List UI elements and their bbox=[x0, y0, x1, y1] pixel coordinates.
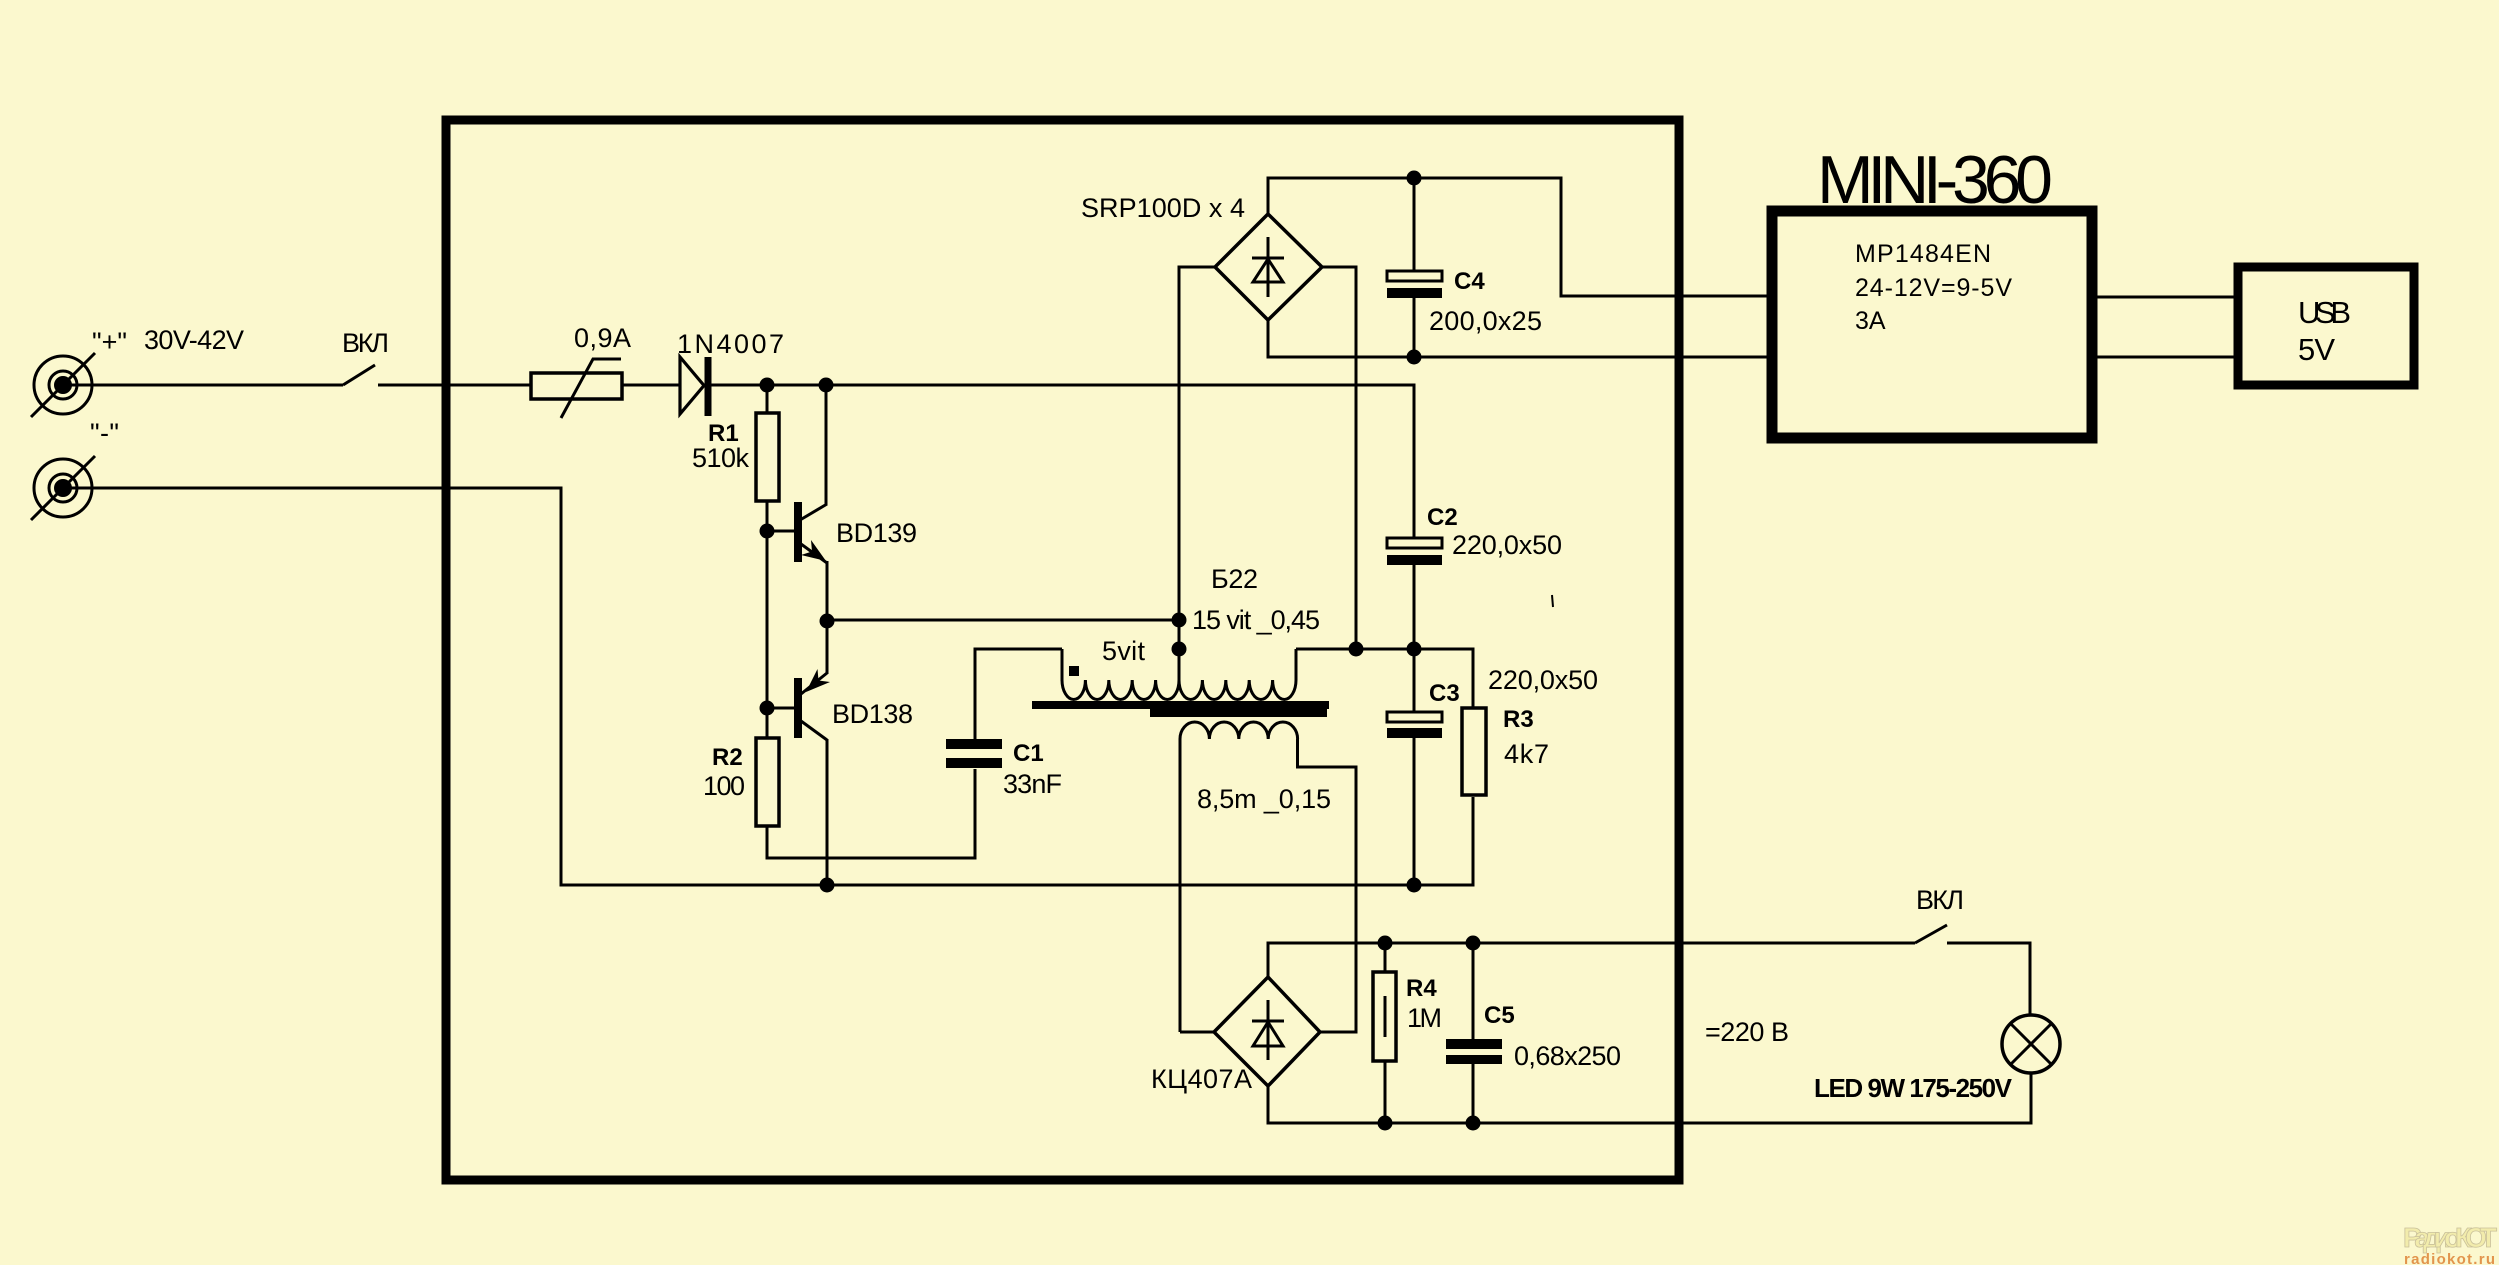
svg-text:Радио КОТ: Радио КОТ bbox=[2403, 1222, 2497, 1253]
terminal "+" bbox=[31, 353, 95, 417]
resistor R1 510k bbox=[756, 413, 779, 501]
node R4 top bbox=[1378, 936, 1393, 951]
USB output box bbox=[2238, 267, 2414, 385]
wire switch to lamp bbox=[1947, 943, 2030, 1016]
lamp EL1 bbox=[2002, 1015, 2060, 1073]
node base VT1 bbox=[760, 524, 775, 539]
svg-text:510k: 510k bbox=[692, 443, 750, 473]
terminal "-" bbox=[31, 456, 95, 520]
svg-text:USB: USB bbox=[2298, 295, 2351, 330]
node C4 top bbox=[1407, 171, 1422, 186]
wire bridge2 top rail to lamp switch bbox=[1268, 943, 1915, 977]
stray tick mark bbox=[1552, 595, 1553, 607]
wire main +rail bbox=[711, 385, 1414, 538]
capacitor C4 200,0x25 bbox=[1387, 178, 1442, 356]
svg-text:200,0x25: 200,0x25 bbox=[1429, 306, 1542, 336]
switch SW1 lever bbox=[343, 365, 375, 385]
node tap-drive bbox=[1172, 613, 1187, 628]
svg-text:1M: 1M bbox=[1407, 1003, 1442, 1033]
node main-VT1 collector bbox=[819, 378, 834, 393]
svg-text:3A: 3A bbox=[1855, 307, 1886, 335]
transformer T1 primary winding 5vit+15vit bbox=[1062, 649, 1296, 700]
capacitor C2 220,0x50 bbox=[1387, 538, 1442, 649]
capacitor C3 220,0x50 bbox=[1387, 649, 1442, 885]
svg-text:33nF: 33nF bbox=[1003, 769, 1062, 799]
capacitor C5 0,68x250 bbox=[1446, 943, 1502, 1123]
svg-text:8,5m _0,15: 8,5m _0,15 bbox=[1197, 784, 1331, 814]
node C3 to ground rail bbox=[1407, 878, 1422, 893]
svg-text:Б22: Б22 bbox=[1211, 564, 1258, 594]
svg-text:C3: C3 bbox=[1429, 680, 1460, 707]
svg-text:BD139: BD139 bbox=[836, 518, 917, 548]
resistor R4 1M bbox=[1373, 943, 1396, 1123]
transformer core bbox=[1032, 701, 1329, 717]
svg-text:220,0x50: 220,0x50 bbox=[1488, 665, 1598, 695]
bridge rectifier VD3 KC407A bbox=[1214, 977, 1320, 1086]
wire lamp bottom return bbox=[1268, 1073, 2031, 1123]
svg-text:0,9A: 0,9A bbox=[574, 323, 631, 353]
svg-text:220,0x50: 220,0x50 bbox=[1452, 530, 1562, 560]
switch SW2 lever bbox=[1915, 925, 1947, 943]
resistor R3 4k7 bbox=[1462, 708, 1486, 795]
svg-text:ВКЛ: ВКЛ bbox=[1916, 885, 1964, 915]
wire 15vit end rail to R3 bbox=[1296, 649, 1473, 708]
wire tap column to bridge1 left vertex bbox=[1179, 267, 1215, 680]
node base VT2 bbox=[760, 701, 775, 716]
module box MINI-360 bbox=[1772, 211, 2092, 438]
svg-text:C1: C1 bbox=[1013, 740, 1044, 767]
svg-text:C4: C4 bbox=[1454, 268, 1485, 295]
transistor Q1 BD139 bbox=[767, 385, 827, 621]
node R4 bottom bbox=[1378, 1116, 1393, 1131]
wires MINI-360 to USB bbox=[2092, 297, 2238, 357]
winding start mark bbox=[1069, 666, 1079, 676]
svg-text:=220 В: =220 В bbox=[1705, 1017, 1789, 1047]
wire emitters to transformer tap bbox=[827, 619, 1179, 622]
wire fuse to diode bbox=[622, 384, 680, 387]
svg-text:C5: C5 bbox=[1484, 1002, 1515, 1029]
watermark RadioKOT bbox=[2403, 1222, 2497, 1268]
svg-text:0,68x250: 0,68x250 bbox=[1514, 1041, 1621, 1071]
main converter block outline bbox=[446, 120, 1679, 1180]
transistor Q2 BD138 bbox=[767, 621, 830, 885]
wire bridge1 right vertex column bbox=[1322, 267, 1356, 649]
svg-text:MINI-360: MINI-360 bbox=[1817, 142, 2053, 218]
svg-text:5V: 5V bbox=[2298, 332, 2335, 367]
wire R2 bottom to C1 bottom bbox=[767, 769, 975, 858]
svg-text:LED 9W 175-250V: LED 9W 175-250V bbox=[1814, 1073, 2013, 1103]
transformer T1 secondary winding 8,5m bbox=[1180, 722, 1356, 1032]
svg-text:SRP100D x 4: SRP100D x 4 bbox=[1081, 193, 1245, 223]
node tap-5vit bbox=[1172, 642, 1187, 657]
diode VD1 1N4007 bbox=[680, 357, 708, 416]
svg-text:30V-42V: 30V-42V bbox=[144, 325, 244, 355]
wire bridge1 top to C4 and MINI input bbox=[1268, 178, 1772, 296]
svg-text:R2: R2 bbox=[712, 744, 743, 771]
node C4 bottom bbox=[1407, 350, 1422, 365]
wire switch to fuse bbox=[378, 384, 531, 387]
svg-text:100: 100 bbox=[703, 771, 745, 801]
svg-text:24-12V=9-5V: 24-12V=9-5V bbox=[1855, 274, 2012, 302]
svg-text:"+": "+" bbox=[92, 327, 127, 357]
node C5 bottom bbox=[1466, 1116, 1481, 1131]
svg-text:4k7: 4k7 bbox=[1504, 739, 1549, 769]
node C5 top bbox=[1466, 936, 1481, 951]
svg-text:"-": "-" bbox=[90, 418, 119, 448]
capacitor C1 33nF bbox=[946, 649, 1062, 768]
svg-text:ВКЛ: ВКЛ bbox=[342, 328, 389, 358]
node emitters VT1/VT2 bbox=[820, 614, 835, 629]
resistor R2 100 bbox=[756, 738, 779, 826]
svg-text:BD138: BD138 bbox=[832, 699, 913, 729]
fuse FU1 0,9A bbox=[531, 359, 622, 418]
svg-text:КЦ407А: КЦ407А bbox=[1151, 1064, 1252, 1094]
wire R1-R2 base column bbox=[766, 385, 769, 738]
svg-text:R4: R4 bbox=[1406, 975, 1437, 1002]
node rail-C2 bbox=[1407, 642, 1422, 657]
node VT2 collector to ground rail bbox=[820, 878, 835, 893]
svg-text:MP1484EN: MP1484EN bbox=[1855, 240, 1991, 268]
bridge rectifier VD2 SRP100D x4 bbox=[1215, 214, 1322, 320]
svg-text:C2: C2 bbox=[1427, 504, 1458, 531]
svg-text:R3: R3 bbox=[1503, 706, 1534, 733]
wire - input bbox=[63, 488, 1473, 885]
svg-text:radiokot.ru: radiokot.ru bbox=[2404, 1251, 2495, 1268]
svg-text:15 vit _0,45: 15 vit _0,45 bbox=[1192, 605, 1320, 635]
node main-R1 bbox=[760, 378, 775, 393]
svg-text:5vit: 5vit bbox=[1102, 636, 1145, 666]
wire + input to switch bbox=[63, 384, 343, 387]
node rail-bridge column bbox=[1349, 642, 1364, 657]
wire bridge1 bottom to MINI input low bbox=[1268, 320, 1772, 357]
